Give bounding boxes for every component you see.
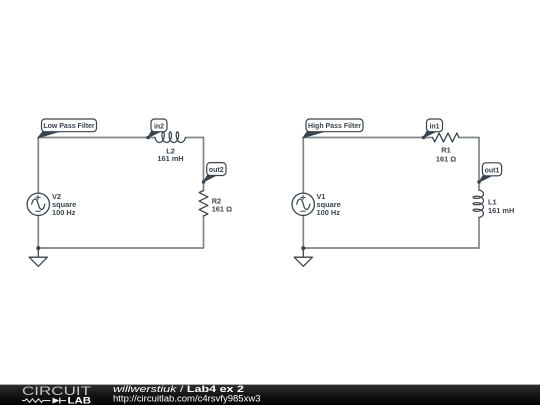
wire V2 bottom vertical	[37, 215, 39, 248]
flag out1 tail	[479, 176, 492, 182]
junction dot at V1 bottom net	[301, 246, 305, 250]
svg-text:in2: in2	[154, 123, 164, 130]
wire right vertical above L1	[478, 138, 480, 191]
resistor R2 zigzag	[199, 191, 208, 217]
svg-text:LAB: LAB	[68, 395, 92, 405]
flag out2 tail	[203, 175, 216, 182]
flag in1 tail	[424, 131, 437, 137]
voltage source V2 circle	[27, 193, 49, 215]
logo diode	[53, 398, 60, 404]
junction dot node out1	[477, 180, 481, 184]
flag in2 tail	[148, 131, 161, 137]
logo resistor zigzag	[22, 399, 51, 403]
wire right vertical below L1	[478, 218, 480, 249]
ground symbol right	[294, 248, 312, 266]
resistor R1 zigzag	[433, 133, 460, 142]
V1 plus sign	[301, 195, 305, 199]
voltage source V1 circle	[292, 193, 314, 215]
flag Low Pass Filter box	[42, 119, 97, 132]
wire right vertical above R2	[203, 138, 205, 191]
svg-text:161 mH: 161 mH	[157, 154, 183, 163]
svg-text:in1: in1	[429, 123, 439, 130]
wire V1 bottom vertical	[302, 215, 304, 248]
flag Low Pass Filter tail	[38, 131, 60, 138]
wire top-right horizontal	[186, 137, 204, 139]
flag in2 box	[151, 119, 167, 132]
flag out1 box	[482, 163, 501, 176]
junction dot at V2 bottom net	[36, 246, 40, 250]
wire top-right horizontal right circuit	[459, 137, 479, 139]
wire V1 top vertical	[302, 138, 304, 194]
svg-text:100 Hz: 100 Hz	[317, 208, 341, 217]
inductor L2 coil	[155, 132, 186, 143]
V2 sine wave	[32, 199, 45, 210]
svg-text:161 Ω: 161 Ω	[212, 204, 232, 213]
junction dot node out2	[202, 180, 206, 184]
wire V2 top vertical	[37, 138, 39, 194]
svg-text:http://circuitlab.com/c4rsvfy9: http://circuitlab.com/c4rsvfy985xw3	[113, 394, 261, 404]
V1 sine wave	[297, 199, 310, 210]
wire top-left horizontal right circuit	[303, 137, 432, 139]
flag High Pass Filter tail	[303, 131, 325, 138]
svg-text:Low Pass Filter: Low Pass Filter	[43, 123, 95, 130]
svg-text:R1: R1	[441, 146, 450, 155]
V1 minus sign	[301, 210, 306, 212]
svg-text:161 Ω: 161 Ω	[436, 155, 456, 164]
inductor L1 coil	[473, 190, 483, 218]
wire top-left horizontal (node in2 net)	[38, 137, 155, 139]
svg-text:out1: out1	[485, 167, 500, 174]
wire bottom horizontal right circuit	[303, 247, 479, 249]
flag in1 box	[427, 119, 443, 132]
svg-text:High Pass Filter: High Pass Filter	[308, 123, 361, 130]
wire bottom horizontal	[38, 247, 203, 249]
wire right vertical below R2	[203, 216, 205, 248]
flag High Pass Filter box	[306, 119, 363, 132]
junction dot node in1	[422, 136, 426, 140]
ground symbol left	[29, 248, 47, 266]
svg-text:161 mH: 161 mH	[488, 206, 514, 215]
svg-text:willwerstiuk / Lab4 ex 2: willwerstiuk / Lab4 ex 2	[113, 384, 244, 394]
V2 plus sign	[36, 195, 40, 199]
flag out2 box	[207, 163, 226, 176]
svg-text:out2: out2	[209, 167, 224, 174]
V2 minus sign	[36, 210, 41, 212]
svg-text:100 Hz: 100 Hz	[52, 208, 76, 217]
junction dot node in2	[146, 136, 150, 140]
